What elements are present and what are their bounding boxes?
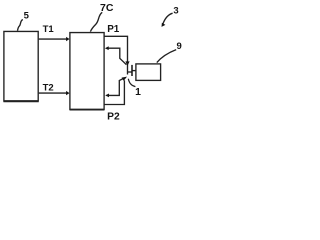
leader line for 1 <box>128 79 135 87</box>
element 1 plate (fiber end face bar) <box>131 65 133 76</box>
wire P2 output (bottom, from 7C right edge, over and up) <box>104 80 124 104</box>
svg-text:7C: 7C <box>100 2 114 14</box>
svg-text:P2: P2 <box>107 112 120 121</box>
svg-text:T1: T1 <box>43 24 55 35</box>
leader line for 7C <box>90 12 102 31</box>
leader line for 9 <box>157 50 176 63</box>
svg-text:1: 1 <box>135 87 141 98</box>
svg-text:9: 9 <box>177 41 182 52</box>
wire P2 return (arrow into 7C) <box>107 78 124 95</box>
box 7C (middle block) <box>70 33 105 110</box>
box 9 (right block) <box>136 64 161 81</box>
wire to box 9 <box>128 71 132 73</box>
wire P1 return (arrow into 7C) <box>107 48 127 64</box>
wire T2 <box>39 92 67 94</box>
leader line for 5 <box>18 20 23 31</box>
wire P1 output (top, from 7C right edge, over and down) <box>104 36 127 74</box>
svg-text:P1: P1 <box>107 24 120 35</box>
svg-text:5: 5 <box>24 11 30 22</box>
arrowhead toward plate (bottom diagonal) <box>122 77 127 81</box>
svg-text:T2: T2 <box>43 83 54 94</box>
box 5 (left block) <box>3 31 38 101</box>
arrow 3 (curved designation arrow) <box>163 13 173 24</box>
arrowhead on P1 down line <box>125 61 129 65</box>
wire T1 <box>39 38 67 40</box>
svg-text:3: 3 <box>173 6 178 17</box>
